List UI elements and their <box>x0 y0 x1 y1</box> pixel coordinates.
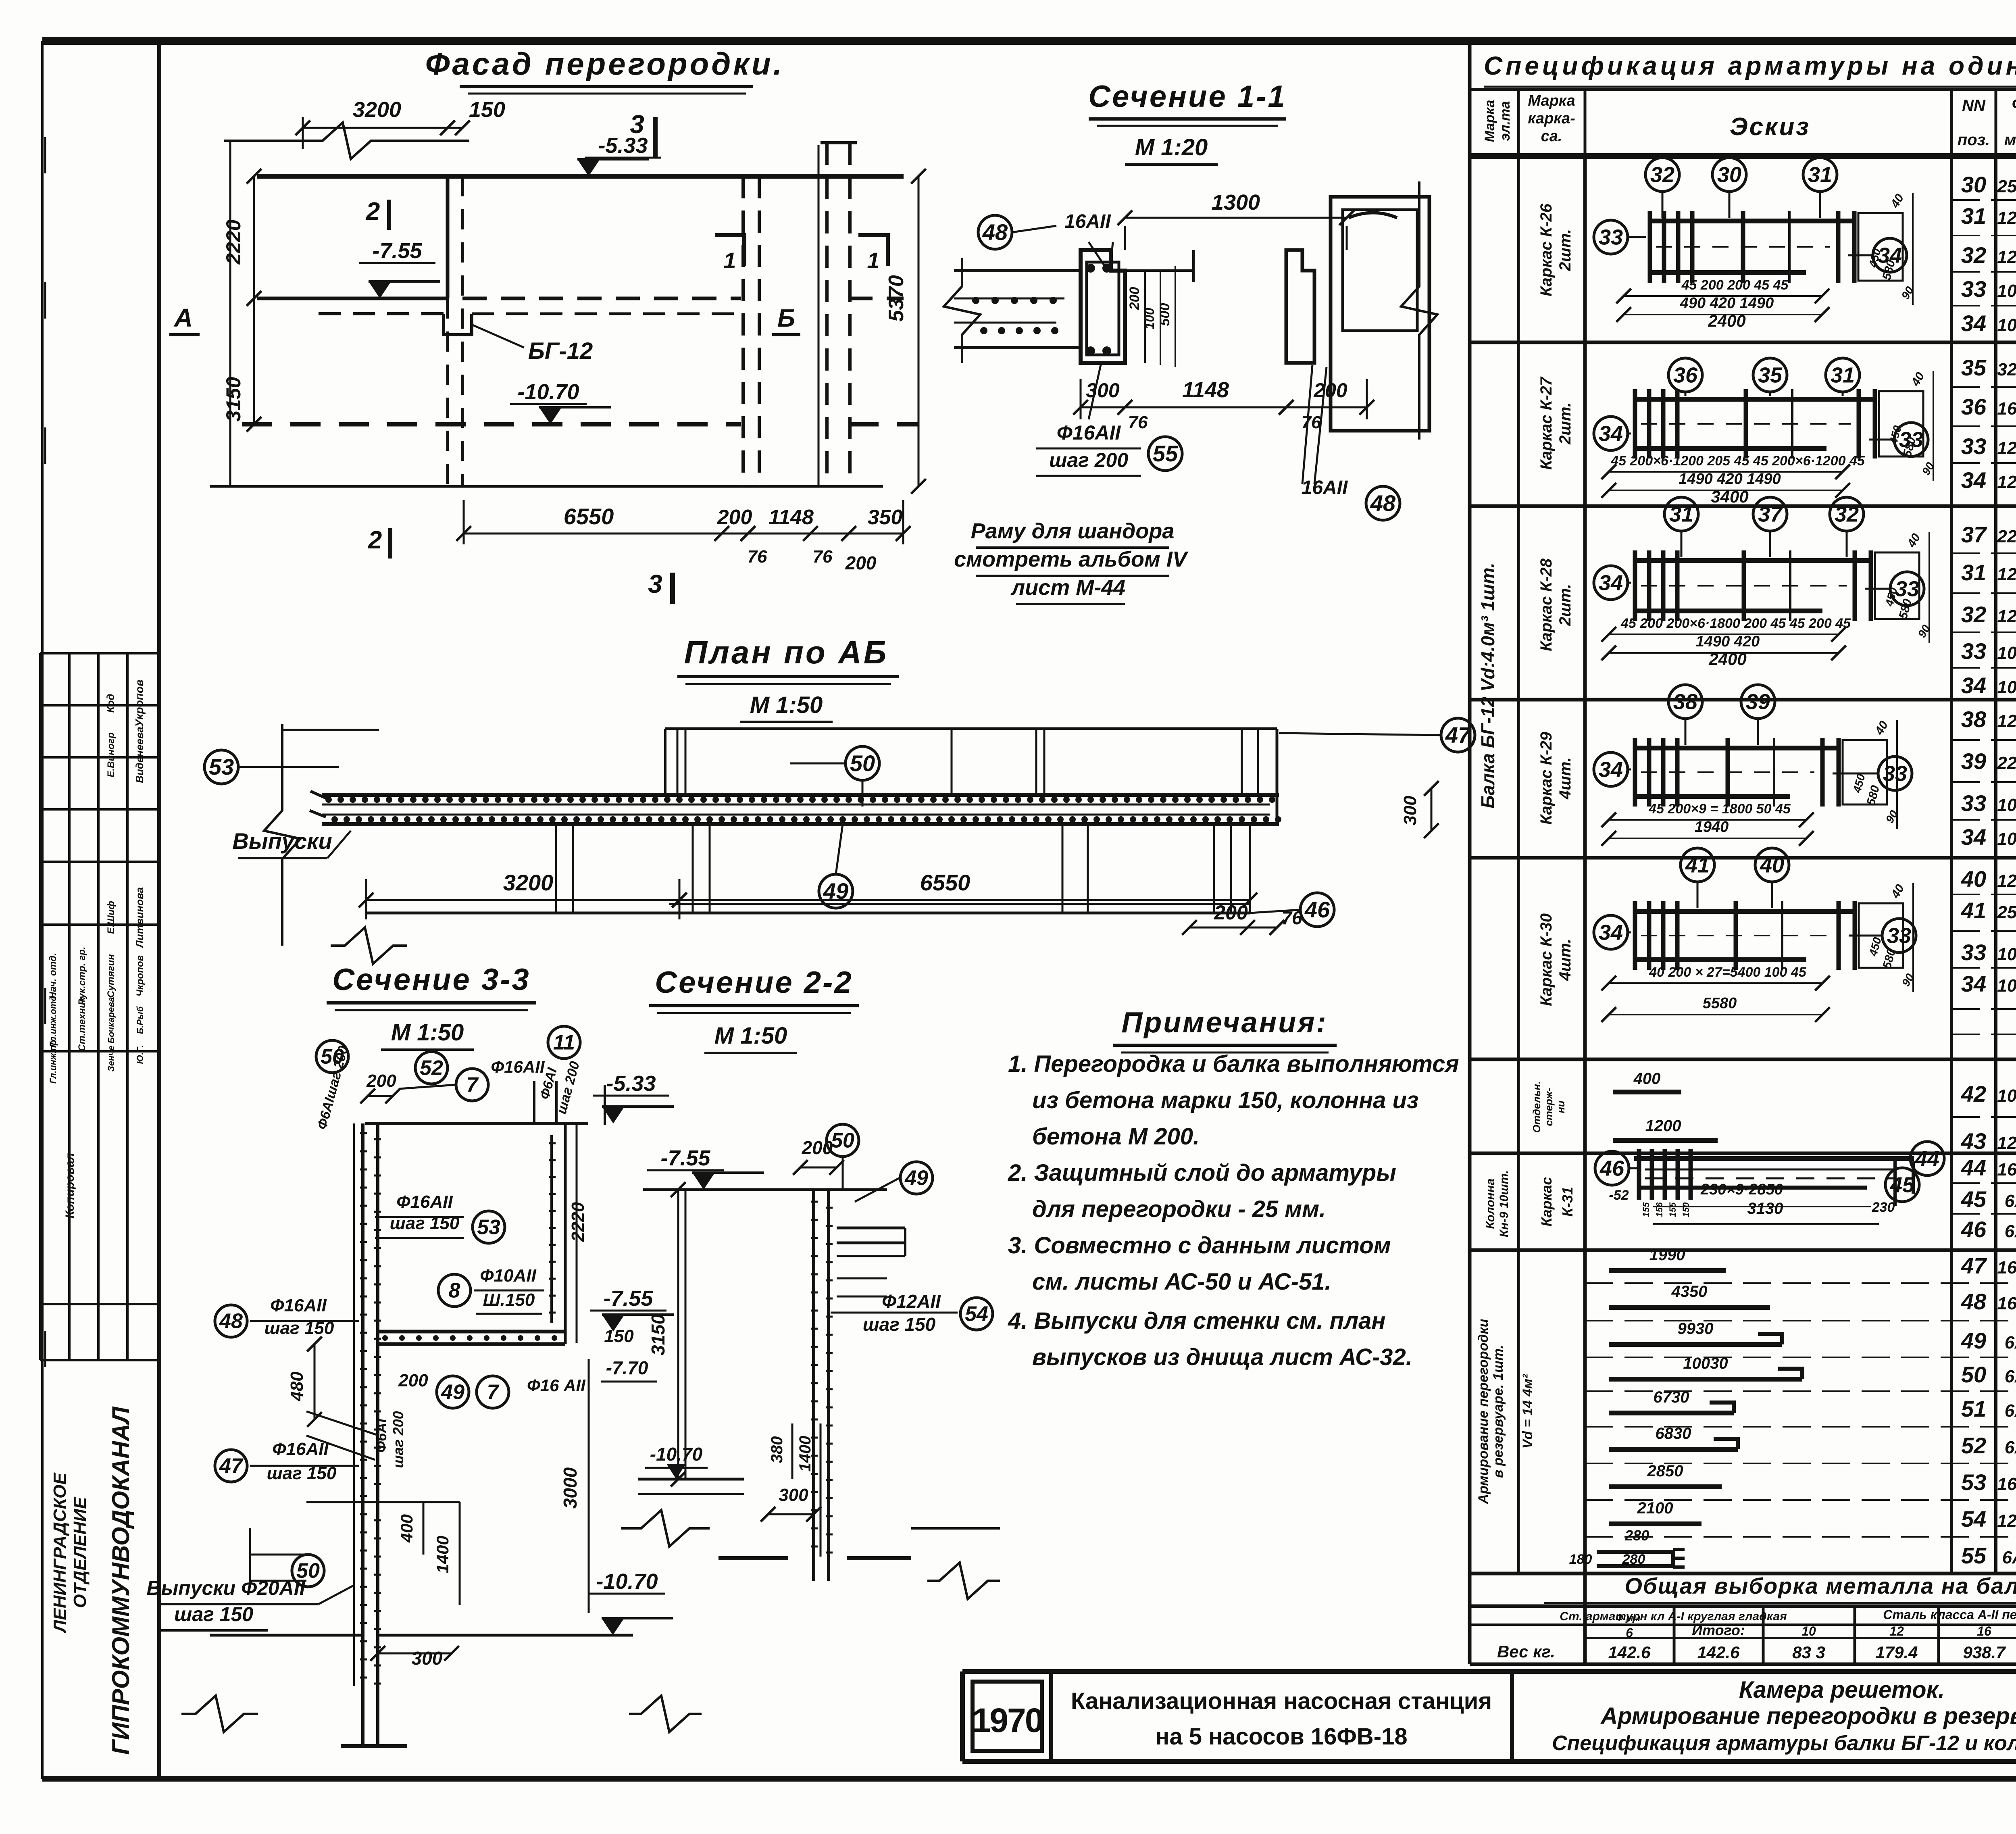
svg-text:30: 30 <box>1961 172 1986 197</box>
svg-text:938.7: 938.7 <box>1963 1643 2006 1662</box>
svg-text:76: 76 <box>748 547 767 567</box>
svg-text:стерж-: стерж- <box>1543 1088 1555 1126</box>
svg-text:Сечение 1-1: Сечение 1-1 <box>1088 79 1286 114</box>
svg-text:М 1:20: М 1:20 <box>1135 134 1208 160</box>
svg-text:47: 47 <box>1961 1253 1987 1278</box>
svg-text:Вес кг.: Вес кг. <box>1497 1642 1555 1661</box>
svg-text:380: 380 <box>768 1436 786 1463</box>
svg-text:6550: 6550 <box>564 504 614 529</box>
svg-text:30: 30 <box>1717 163 1741 187</box>
svg-text:42: 42 <box>1961 1081 1986 1107</box>
svg-text:34: 34 <box>1599 757 1623 782</box>
svg-text:38: 38 <box>1673 690 1697 714</box>
svg-text:Ф10АII: Ф10АII <box>480 1266 536 1286</box>
svg-text:280: 280 <box>1622 1552 1645 1567</box>
svg-text:1: 1 <box>723 248 736 273</box>
svg-text:-5.33: -5.33 <box>598 133 648 158</box>
svg-text:М 1:50: М 1:50 <box>391 1019 464 1046</box>
spec table row separator lines <box>1951 199 2016 201</box>
svg-text:10АII: 10АII <box>1997 643 2016 663</box>
svg-text:1300: 1300 <box>1212 190 1260 215</box>
svg-text:45: 45 <box>1890 1173 1915 1197</box>
svg-text:2850: 2850 <box>1647 1462 1683 1480</box>
svg-text:45 200 200×6·1800 200 45 45 20: 45 200 200×6·1800 200 45 45 200 45 <box>1620 616 1851 631</box>
svg-text:Б: Б <box>777 304 795 332</box>
svg-text:34: 34 <box>1961 311 1986 336</box>
svg-text:6АI: 6АI <box>2005 1367 2016 1386</box>
svg-text:36: 36 <box>1961 394 1987 419</box>
svg-text:1: 1 <box>867 248 879 273</box>
svg-text:50: 50 <box>831 1129 854 1153</box>
svg-text:6АI: 6АI <box>2005 1191 2016 1211</box>
svg-text:39: 39 <box>1961 748 1986 774</box>
sketch cage К-31 <box>1634 1156 1914 1161</box>
svg-text:41: 41 <box>1685 853 1710 877</box>
svg-text:6АI: 6АI <box>2005 1401 2016 1421</box>
svg-text:М 1:50: М 1:50 <box>750 692 823 718</box>
svg-text:490 420 1490: 490 420 1490 <box>1680 295 1774 312</box>
svg-text:Ф16 АII: Ф16 АII <box>527 1376 586 1395</box>
svg-text:280: 280 <box>1624 1527 1649 1544</box>
svg-text:150: 150 <box>604 1326 634 1346</box>
svg-text:33: 33 <box>1961 790 1986 816</box>
svg-text:31: 31 <box>1961 203 1986 229</box>
svg-text:40: 40 <box>1760 853 1784 877</box>
spec table block boundary lines <box>1470 156 2016 159</box>
svg-text:Канализационная насосная ста: Канализационная насосная станция <box>1071 1688 1492 1714</box>
svg-text:55: 55 <box>1961 1543 1987 1568</box>
svg-text:Сечение 3-3: Сечение 3-3 <box>332 963 530 997</box>
svg-text:Примечания:: Примечания: <box>1121 1007 1327 1039</box>
svg-text:3000: 3000 <box>560 1467 581 1509</box>
svg-text:1200: 1200 <box>1645 1117 1681 1135</box>
svg-text:Е.Виногр: Е.Виногр <box>106 732 117 777</box>
svg-text:ОТДЕЛЕНИЕ: ОТДЕЛЕНИЕ <box>70 1496 90 1608</box>
svg-text:31: 31 <box>1831 363 1855 387</box>
svg-text:6АI: 6АI <box>2005 1221 2016 1241</box>
column section right <box>1331 197 1429 431</box>
svg-text:39: 39 <box>1746 690 1770 714</box>
svg-text:Каркас К-30: Каркас К-30 <box>1537 913 1555 1006</box>
facade drawing <box>224 123 469 159</box>
svg-text:34: 34 <box>1599 920 1623 944</box>
svg-text:Армирование перегородки в ре: Армирование перегородки в резервуаре. <box>1600 1703 2016 1729</box>
svg-text:200: 200 <box>717 506 752 529</box>
svg-text:карка-: карка- <box>1528 110 1575 127</box>
svg-text:32: 32 <box>1650 163 1674 187</box>
svg-text:М 1:50: М 1:50 <box>714 1023 787 1049</box>
svg-text:3130: 3130 <box>1747 1200 1783 1217</box>
svg-text:500: 500 <box>1157 303 1173 326</box>
svg-text:53: 53 <box>209 754 234 779</box>
svg-text:3200: 3200 <box>503 870 554 895</box>
svg-text:4шт.: 4шт. <box>1556 757 1574 800</box>
svg-text:поз.: поз. <box>1958 131 1990 149</box>
svg-text:44: 44 <box>1915 1146 1939 1171</box>
svg-text:3150: 3150 <box>222 377 245 421</box>
plan dims <box>366 899 679 901</box>
svg-text:бетона М 200.: бетона М 200. <box>1032 1123 1200 1150</box>
svg-text:3. Совместно с данным листом: 3. Совместно с данным листом <box>1008 1232 1391 1259</box>
svg-text:1148: 1148 <box>768 506 814 529</box>
svg-text:350: 350 <box>868 506 903 529</box>
svg-text:1940: 1940 <box>1695 819 1729 836</box>
svg-text:53: 53 <box>477 1216 500 1239</box>
svg-text:16АII: 16АII <box>1997 1258 2016 1278</box>
svg-text:33: 33 <box>1599 225 1623 249</box>
svg-text:50: 50 <box>1961 1362 1986 1387</box>
svg-text:Армирование перегородки: Армирование перегородки <box>1476 1319 1491 1504</box>
svg-text:10АII: 10АII <box>1997 1086 2016 1106</box>
svg-text:4. Выпуски для стенки см. план: 4. Выпуски для стенки см. план <box>1008 1308 1385 1334</box>
title block: year 1970 <box>973 1682 1042 1751</box>
svg-text:12АII: 12АII <box>1997 208 2016 228</box>
svg-text:2шт.: 2шт. <box>1556 229 1574 271</box>
svg-text:Vd = 14 4м²: Vd = 14 4м² <box>1520 1373 1535 1449</box>
svg-text:200: 200 <box>845 552 877 573</box>
svg-text:54: 54 <box>1961 1506 1986 1532</box>
svg-text:см. листы АС-50 и АС-51.: см. листы АС-50 и АС-51. <box>1032 1269 1331 1295</box>
svg-text:ГИПРОКОММУНВОДОКАНАЛ: ГИПРОКОММУНВОДОКАНАЛ <box>107 1406 134 1755</box>
beam БГ-12 notch <box>444 314 472 335</box>
svg-text:Каркас К-27: Каркас К-27 <box>1537 376 1555 470</box>
svg-text:49: 49 <box>441 1381 464 1404</box>
svg-text:Каркас: Каркас <box>1538 1177 1555 1227</box>
svg-text:6АII: 6АII <box>2002 1548 2016 1567</box>
svg-text:Раму для шандора: Раму для шандора <box>971 519 1175 543</box>
svg-text:Спецификация арматуры на оди: Спецификация арматуры на один элемент. <box>1484 51 2016 80</box>
svg-text:156: 156 <box>1654 1202 1664 1217</box>
svg-text:33: 33 <box>1961 940 1986 965</box>
svg-text:Выпуски: Выпуски <box>232 828 332 854</box>
svg-text:NN: NN <box>1962 97 1986 115</box>
svg-text:Колонна: Колонна <box>1484 1178 1497 1229</box>
svg-text:3150: 3150 <box>648 1314 669 1355</box>
svg-text:10АII: 10АII <box>1997 677 2016 697</box>
sketch cage К-27 <box>1633 397 1875 402</box>
svg-text:16АII: 16АII <box>1997 1160 2016 1180</box>
svg-text:33: 33 <box>1899 427 1923 452</box>
svg-text:6550: 6550 <box>920 870 971 895</box>
svg-text:Сутягин: Сутягин <box>106 954 117 998</box>
svg-text:Балка БГ-12 Vd:4.0м³ 1шт.: Балка БГ-12 Vd:4.0м³ 1шт. <box>1477 563 1498 808</box>
svg-text:52: 52 <box>420 1057 443 1080</box>
svg-text:16АII: 16АII <box>1302 477 1348 498</box>
svg-text:Укропов: Укропов <box>133 679 146 727</box>
svg-text:480: 480 <box>287 1371 307 1402</box>
svg-text:31: 31 <box>1808 163 1832 187</box>
svg-text:34: 34 <box>1878 243 1902 267</box>
svg-text:32АII: 32АII <box>1997 360 2016 379</box>
svg-text:эл.та: эл.та <box>1497 101 1513 141</box>
svg-text:34: 34 <box>1961 824 1986 850</box>
svg-text:Ф16АII: Ф16АII <box>491 1057 545 1076</box>
svg-text:300: 300 <box>1400 796 1420 825</box>
svg-text:Ф16АII: Ф16АII <box>1057 421 1121 444</box>
section 2-2 drawing <box>692 1173 715 1190</box>
sketch cage К-26 <box>1648 219 1854 223</box>
svg-text:-10.70: -10.70 <box>650 1444 703 1465</box>
svg-text:12АII: 12АII <box>1997 871 2016 891</box>
svg-text:76: 76 <box>813 547 833 567</box>
svg-text:25АII: 25АII <box>1997 177 2016 196</box>
svg-text:50: 50 <box>850 750 875 776</box>
svg-text:10АII: 10АII <box>1997 281 2016 301</box>
svg-text:12АII: 12АII <box>1997 565 2016 584</box>
svg-text:35: 35 <box>1961 355 1987 380</box>
svg-text:на 5 насосов 16ФВ-18: на 5 насосов 16ФВ-18 <box>1155 1724 1407 1750</box>
svg-text:46: 46 <box>1599 1156 1624 1180</box>
svg-text:Отдельн.: Отдельн. <box>1531 1081 1543 1133</box>
svg-text:Рук.стр. гр.: Рук.стр. гр. <box>77 946 87 1005</box>
svg-text:179.4: 179.4 <box>1875 1643 1918 1662</box>
title block <box>962 1669 2016 1674</box>
svg-text:46: 46 <box>1961 1217 1987 1242</box>
svg-text:16АII: 16АII <box>1997 399 2016 419</box>
svg-text:34: 34 <box>1961 467 1986 493</box>
svg-text:10030: 10030 <box>1683 1355 1728 1372</box>
svg-text:шаг 200: шаг 200 <box>1049 449 1128 471</box>
svg-text:7: 7 <box>487 1381 500 1404</box>
svg-text:142.6: 142.6 <box>1608 1643 1651 1662</box>
partition wall edges <box>446 176 450 298</box>
svg-text:10АII: 10АII <box>1997 315 2016 335</box>
svg-text:Марка: Марка <box>1528 92 1575 109</box>
svg-text:1970: 1970 <box>972 1701 1043 1739</box>
svg-text:1400: 1400 <box>433 1536 452 1573</box>
sketch cage К-29 <box>1633 746 1839 750</box>
svg-text:45: 45 <box>1961 1186 1987 1212</box>
svg-text:12: 12 <box>1889 1624 1904 1638</box>
svg-text:1. Перегородка и балка выполня: 1. Перегородка и балка выполняются <box>1008 1051 1459 1077</box>
right wall member <box>564 1123 567 1344</box>
svg-text:ни: ни <box>1555 1100 1567 1113</box>
svg-text:83 3: 83 3 <box>1792 1643 1825 1662</box>
svg-text:Ф: Ф <box>2012 94 2016 113</box>
svg-text:400: 400 <box>1633 1070 1661 1088</box>
svg-text:33: 33 <box>1895 577 1919 601</box>
svg-text:-5.33: -5.33 <box>606 1071 656 1096</box>
svg-text:Код: Код <box>104 694 117 713</box>
sketch cage К-28 <box>1633 558 1871 563</box>
svg-text:49: 49 <box>1961 1328 1986 1353</box>
section 3-3 wall <box>365 1122 588 1125</box>
svg-text:2шт.: 2шт. <box>1556 402 1574 445</box>
svg-text:38: 38 <box>1961 707 1987 732</box>
svg-text:6АI: 6АI <box>2005 1438 2016 1457</box>
svg-text:1490 420 1490: 1490 420 1490 <box>1679 471 1781 488</box>
svg-text:200: 200 <box>398 1371 428 1390</box>
svg-text:300: 300 <box>779 1485 808 1505</box>
svg-text:Каркас К-29: Каркас К-29 <box>1537 732 1555 825</box>
svg-text:45 200×9 = 1800 50 45: 45 200×9 = 1800 50 45 <box>1648 801 1791 817</box>
svg-text:16АII: 16АII <box>1997 1474 2016 1494</box>
svg-text:Итого:: Итого: <box>1692 1622 1745 1638</box>
svg-text:52: 52 <box>1961 1433 1986 1458</box>
svg-text:Гл.инж.пр.: Гл.инж.пр. <box>48 1038 58 1084</box>
svg-text:Общая выборка металла на: Общая выборка металла на балку БГ-12, пе… <box>1624 1573 2016 1598</box>
svg-text:Зенче: Зенче <box>106 1046 116 1072</box>
svg-text:150: 150 <box>469 98 505 122</box>
svg-text:34: 34 <box>1599 421 1623 446</box>
svg-text:200: 200 <box>802 1137 833 1158</box>
svg-text:230×9·2850: 230×9·2850 <box>1700 1181 1783 1198</box>
section 2-2 footing <box>719 1556 788 1560</box>
svg-text:шаг 150: шаг 150 <box>863 1314 936 1335</box>
svg-text:200: 200 <box>1313 379 1347 402</box>
svg-text:лист М-44: лист М-44 <box>1010 575 1126 600</box>
stamp signature table (rotated) <box>39 653 42 1360</box>
svg-text:шаг 150: шаг 150 <box>174 1603 253 1626</box>
svg-text:33: 33 <box>1883 761 1907 786</box>
svg-text:33: 33 <box>1961 638 1986 664</box>
svg-text:12АII: 12АII <box>1997 247 2016 267</box>
svg-text:37: 37 <box>1758 502 1783 526</box>
svg-text:12АII: 12АII <box>1997 1133 2016 1153</box>
svg-text:Б.Рыб: Б.Рыб <box>135 1006 145 1034</box>
svg-text:ЛЕНИНГРАДСКОЕ: ЛЕНИНГРАДСКОЕ <box>50 1472 70 1634</box>
svg-text:12АII: 12АII <box>1997 711 2016 731</box>
svg-text:Камера решеток.: Камера решеток. <box>1739 1677 1945 1703</box>
svg-text:Бочкарева: Бочкарева <box>106 997 116 1043</box>
svg-text:Ф12АII: Ф12АII <box>882 1291 941 1312</box>
svg-text:33: 33 <box>1961 276 1986 302</box>
svg-text:40 200 × 27=5400 100 45: 40 200 × 27=5400 100 45 <box>1649 965 1807 980</box>
svg-text:142.6: 142.6 <box>1697 1643 1740 1662</box>
sketch cage К-30 <box>1633 909 1855 914</box>
svg-text:76: 76 <box>1281 907 1302 928</box>
svg-text:2220: 2220 <box>222 219 245 265</box>
svg-text:34: 34 <box>1961 971 1986 996</box>
svg-text:3: 3 <box>648 569 662 598</box>
svg-text:200: 200 <box>1127 287 1142 311</box>
svg-text:2400: 2400 <box>1708 311 1745 330</box>
svg-text:10АII: 10АII <box>1997 795 2016 815</box>
svg-text:33: 33 <box>1887 923 1911 948</box>
svg-text:6730: 6730 <box>1654 1388 1689 1406</box>
svg-text:9930: 9930 <box>1678 1320 1714 1338</box>
svg-text:32: 32 <box>1961 602 1986 627</box>
svg-text:6830: 6830 <box>1656 1425 1691 1442</box>
svg-text:53: 53 <box>1961 1469 1986 1495</box>
svg-text:Ф16АII: Ф16АII <box>396 1192 453 1212</box>
svg-text:Марка: Марка <box>1482 100 1497 142</box>
svg-text:1148: 1148 <box>1182 378 1229 402</box>
svg-text:34: 34 <box>1599 571 1623 595</box>
svg-text:47: 47 <box>1445 722 1472 748</box>
svg-text:45 200 200 45 45: 45 200 200 45 45 <box>1681 277 1789 293</box>
svg-text:Виденеева: Виденеева <box>133 727 146 783</box>
svg-text:Сечение 2-2: Сечение 2-2 <box>655 965 853 1000</box>
facade bottom dimensions <box>464 533 722 535</box>
svg-text:41: 41 <box>1961 898 1986 923</box>
section 1-1 drawing <box>954 269 1081 272</box>
svg-text:51: 51 <box>1961 1396 1986 1421</box>
svg-text:1490 420: 1490 420 <box>1696 633 1760 650</box>
svg-text:12АII: 12АII <box>1997 1511 2016 1531</box>
svg-text:16АII: 16АII <box>1064 211 1111 232</box>
svg-text:180: 180 <box>1569 1552 1592 1567</box>
svg-text:48: 48 <box>1370 490 1396 516</box>
svg-text:Эскиз: Эскиз <box>1730 113 1810 141</box>
svg-text:Литвинова: Литвинова <box>133 887 146 948</box>
svg-text:-10.70: -10.70 <box>517 380 579 404</box>
svg-text:12АII: 12АII <box>1997 472 2016 492</box>
svg-text:22АII: 22АII <box>1997 527 2016 546</box>
svg-text:200: 200 <box>1214 901 1248 924</box>
svg-text:2220: 2220 <box>568 1202 588 1242</box>
svg-text:Ст.техник: Ст.техник <box>77 996 87 1051</box>
svg-text:Ст. арматурн кл А-I круглая гл: Ст. арматурн кл А-I круглая гладкая <box>1560 1610 1787 1623</box>
svg-text:45 200×6·1200 205 45 45 200×6·: 45 200×6·1200 205 45 45 200×6·1200 45 <box>1610 453 1865 469</box>
svg-text:35: 35 <box>1758 363 1783 387</box>
svg-text:48: 48 <box>1961 1289 1987 1314</box>
svg-text:мм.: мм. <box>2004 131 2016 149</box>
svg-text:230: 230 <box>1872 1200 1895 1215</box>
svg-text:выпусков из днища лист АС-32.: выпусков из днища лист АС-32. <box>1032 1344 1412 1370</box>
svg-text:22АII: 22АII <box>1997 753 2016 773</box>
svg-text:Ф16АII: Ф16АII <box>272 1439 329 1459</box>
svg-text:-7.55: -7.55 <box>660 1146 710 1170</box>
svg-text:4350: 4350 <box>1671 1283 1708 1300</box>
svg-text:47: 47 <box>219 1455 244 1478</box>
svg-text:БГ-12: БГ-12 <box>528 338 593 364</box>
stamp column separator <box>157 41 161 1779</box>
svg-text:План по АБ: План по АБ <box>684 634 889 670</box>
svg-text:43: 43 <box>1961 1128 1986 1154</box>
column above slab <box>825 143 829 486</box>
section 3-3 slab <box>602 1107 625 1123</box>
svg-text:7: 7 <box>467 1073 479 1097</box>
section 3-3 ground <box>210 1634 363 1637</box>
svg-text:48: 48 <box>982 219 1008 245</box>
svg-text:50: 50 <box>321 1045 344 1069</box>
svg-text:из бетона марки 150, колонна и: из бетона марки 150, колонна из <box>1032 1087 1419 1113</box>
svg-text:Е.Шиф: Е.Шиф <box>106 901 117 934</box>
svg-text:10: 10 <box>1801 1624 1816 1638</box>
svg-text:12АII: 12АII <box>1997 438 2016 458</box>
svg-text:400: 400 <box>397 1514 416 1543</box>
svg-text:1400: 1400 <box>796 1436 814 1472</box>
svg-text:А: А <box>173 303 193 332</box>
svg-text:10АII: 10АII <box>1997 976 2016 996</box>
svg-text:смотреть альбом IV: смотреть альбом IV <box>954 547 1189 571</box>
svg-text:шаг 200: шаг 200 <box>390 1411 406 1468</box>
svg-text:16АII: 16АII <box>1997 1294 2016 1313</box>
svg-text:34: 34 <box>1961 673 1986 698</box>
svg-text:32: 32 <box>1961 242 1986 268</box>
svg-text:200: 200 <box>366 1071 396 1091</box>
svg-text:Нач. отд.: Нач. отд. <box>48 953 58 999</box>
svg-text:2100: 2100 <box>1637 1499 1673 1517</box>
svg-text:54: 54 <box>965 1303 988 1326</box>
svg-text:-7.70: -7.70 <box>606 1357 648 1378</box>
svg-text:Каркас К-26: Каркас К-26 <box>1537 203 1555 296</box>
svg-text:К-31: К-31 <box>1559 1187 1576 1217</box>
svg-text:300: 300 <box>1086 379 1120 402</box>
beam БГ-12 cross-section <box>1081 250 1125 363</box>
svg-text:-7.55: -7.55 <box>372 239 422 263</box>
svg-text:2: 2 <box>366 198 380 225</box>
svg-text:в резервуаре. 1шт.: в резервуаре. 1шт. <box>1491 1345 1506 1478</box>
svg-text:Ф мм: Ф мм <box>1616 1613 1641 1624</box>
svg-text:76: 76 <box>1302 413 1321 432</box>
section 1-1 bottom dims <box>1081 406 1125 408</box>
svg-text:2400: 2400 <box>1708 650 1746 669</box>
svg-text:25АII: 25АII <box>1997 902 2016 922</box>
svg-text:Копировал: Копировал <box>63 1153 77 1218</box>
svg-text:Фасад перегородки.: Фасад перегородки. <box>425 46 785 81</box>
